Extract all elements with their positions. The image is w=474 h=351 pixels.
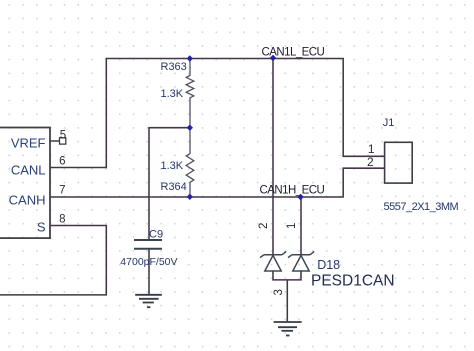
svg-text:5557_2X1_3MM: 5557_2X1_3MM (384, 201, 459, 213)
svg-text:CANL: CANL (11, 163, 46, 178)
svg-text:PESD1CAN: PESD1CAN (311, 273, 395, 290)
svg-text:1.3K: 1.3K (161, 160, 184, 172)
diode D18 right (zener, pin 1) (288, 251, 314, 271)
svg-text:CAN1L_ECU: CAN1L_ECU (262, 46, 325, 58)
wire right diode branch from CAN1H (300, 197, 302, 255)
svg-text:CANH: CANH (9, 193, 46, 208)
svg-text:1: 1 (368, 142, 375, 156)
svg-text:R364: R364 (161, 181, 187, 193)
wire diode anodes join to pin 3 (273, 271, 301, 280)
svg-text:CAN1H_ECU: CAN1H_ECU (260, 184, 325, 196)
capacitor C9 plates (134, 240, 162, 249)
wire C9 bottom to ground (148, 249, 150, 295)
svg-text:J1: J1 (383, 117, 395, 129)
ground under C9 (135, 295, 162, 307)
svg-text:S: S (37, 220, 46, 235)
wire pin3 down to ground (286, 280, 288, 322)
svg-text:2: 2 (367, 155, 374, 169)
resistor R363 (186, 59, 194, 128)
ground under D18 (274, 322, 302, 336)
diode D18 left (zener, pin 2) (260, 251, 286, 271)
junction at R363/R364/C9 node (187, 125, 193, 131)
junction at diode branch / CAN1L (270, 55, 276, 61)
wire CAN1H net: pin7 right across, up to J1 pin2 (50, 168, 385, 197)
junction at R364 bottom / CAN1H (187, 194, 193, 200)
svg-text:7: 7 (59, 185, 65, 197)
svg-text:5: 5 (60, 130, 66, 142)
wire S net: pin8 right, down, left off page (0, 226, 106, 295)
svg-text:3: 3 (273, 289, 285, 295)
junction at R363 top / CAN1L (187, 55, 193, 61)
wire node to C9: from R junction left then down (149, 128, 190, 240)
IC U? (CAN transceiver, partial) (0, 128, 50, 239)
pin 5 stub (50, 140, 60, 142)
wire CAN1L net: pin6 right, up, across top, down to J1 pin1 (50, 59, 385, 168)
svg-text:C9: C9 (149, 228, 163, 240)
wire left diode branch from CAN1L (272, 59, 274, 255)
connector J1 box (385, 142, 413, 183)
pin 5 no-connect square (60, 138, 66, 144)
junction at right diode / CAN1H (297, 194, 303, 200)
svg-text:1.3K: 1.3K (161, 88, 184, 100)
svg-text:4700pF/50V: 4700pF/50V (120, 256, 177, 268)
svg-text:8: 8 (59, 214, 65, 226)
svg-text:R363: R363 (161, 61, 187, 73)
svg-text:VREF: VREF (11, 135, 46, 150)
svg-text:2: 2 (258, 223, 270, 229)
svg-text:6: 6 (59, 156, 65, 168)
svg-text:1: 1 (286, 223, 298, 229)
resistor R364 (186, 128, 194, 197)
svg-text:D18: D18 (317, 258, 340, 272)
